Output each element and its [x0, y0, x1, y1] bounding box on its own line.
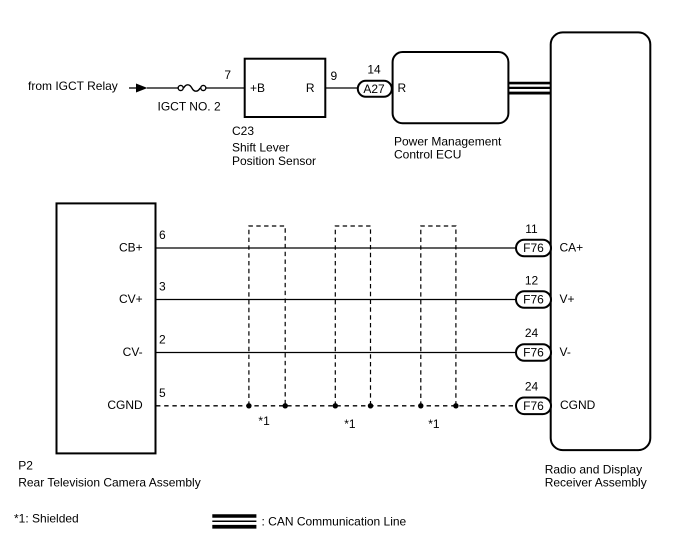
svg-text:24: 24 — [525, 379, 539, 393]
component Radio and Display Receiver Assembly — [551, 32, 651, 450]
svg-text:V-: V- — [560, 345, 571, 359]
svg-text:5: 5 — [159, 386, 166, 400]
svg-text:: CAN Communication Line: : CAN Communication Line — [262, 514, 407, 528]
svg-text:Radio and Display: Radio and Display — [545, 463, 642, 477]
svg-text:6: 6 — [159, 228, 166, 242]
wire CV+ to V+ — [156, 299, 516, 301]
svg-text:Shift Lever: Shift Lever — [232, 141, 289, 155]
svg-text:C23: C23 — [232, 124, 254, 138]
junction: shield 1 left drain dot — [246, 403, 251, 408]
wire CV- to V- — [156, 352, 516, 354]
svg-text:R: R — [398, 81, 407, 95]
wire CB+ to CA+ — [156, 247, 516, 249]
component C23 Shift Lever Position Sensor — [245, 59, 326, 117]
fuse IGCT NO. 2 — [178, 85, 206, 91]
wire: C23 pin 9 to connector A27 — [326, 87, 359, 89]
shield 1 (dashed enclosure) — [249, 226, 285, 406]
shield 3 (dashed enclosure) — [421, 226, 456, 406]
svg-text:2: 2 — [159, 333, 166, 347]
junction: shield 2 left drain dot — [333, 403, 338, 408]
svg-text:Position Sensor: Position Sensor — [232, 154, 316, 168]
svg-text:R: R — [306, 81, 315, 95]
svg-text:P2: P2 — [18, 458, 33, 472]
svg-text:CGND: CGND — [107, 398, 143, 412]
svg-text:Rear Television Camera Assembl: Rear Television Camera Assembly — [18, 475, 201, 489]
component P2 Rear Television Camera Assembly — [57, 203, 156, 453]
junction: shield 1 right drain dot — [283, 403, 288, 408]
wire: fuse to C23 pin 7 — [206, 87, 244, 89]
svg-text:A27: A27 — [363, 82, 385, 96]
svg-text:11: 11 — [525, 222, 538, 236]
svg-text:9: 9 — [331, 69, 338, 83]
svg-text:*1: *1 — [344, 417, 356, 431]
connector A27 — [358, 81, 392, 97]
svg-text:V+: V+ — [560, 292, 575, 306]
component U1 Power Management Control ECU — [393, 52, 509, 123]
svg-text:from IGCT Relay: from IGCT Relay — [28, 79, 118, 93]
junction: shield 2 right drain dot — [368, 403, 373, 408]
node: arrow head (signal direction) — [136, 84, 148, 93]
svg-text:CV-: CV- — [123, 345, 143, 359]
wire CGND (shield drain, dashed) — [156, 405, 516, 407]
svg-text:F76: F76 — [523, 293, 544, 307]
svg-text:*1: *1 — [258, 414, 270, 428]
wire: arrow to fuse — [147, 87, 178, 89]
svg-text:CA+: CA+ — [560, 240, 584, 254]
svg-text:CGND: CGND — [560, 398, 596, 412]
svg-text:+B: +B — [250, 81, 265, 95]
svg-text:3: 3 — [159, 280, 166, 294]
wire: CAN bus ECU to Radio (triple line) — [509, 83, 552, 93]
svg-text:*1: *1 — [428, 417, 440, 431]
svg-text:*1: Shielded: *1: Shielded — [14, 512, 79, 526]
junction: shield 3 right drain dot — [453, 403, 458, 408]
svg-text:Control ECU: Control ECU — [394, 147, 461, 161]
svg-text:CV+: CV+ — [119, 292, 143, 306]
svg-text:IGCT NO. 2: IGCT NO. 2 — [158, 100, 221, 114]
svg-text:24: 24 — [525, 326, 539, 340]
svg-text:F76: F76 — [523, 399, 544, 413]
svg-text:12: 12 — [525, 273, 539, 287]
svg-text:F76: F76 — [523, 346, 544, 360]
svg-text:CB+: CB+ — [119, 240, 143, 254]
wire: arrow lead from IGCT Relay — [129, 87, 137, 89]
svg-text:7: 7 — [224, 68, 231, 82]
svg-text:F76: F76 — [523, 241, 544, 255]
shield 2 (dashed enclosure) — [335, 226, 370, 406]
svg-text:14: 14 — [367, 63, 381, 77]
legend: CAN line symbol (triple line) — [212, 516, 256, 527]
junction: shield 3 left drain dot — [418, 403, 423, 408]
svg-text:Receiver Assembly: Receiver Assembly — [545, 475, 647, 489]
